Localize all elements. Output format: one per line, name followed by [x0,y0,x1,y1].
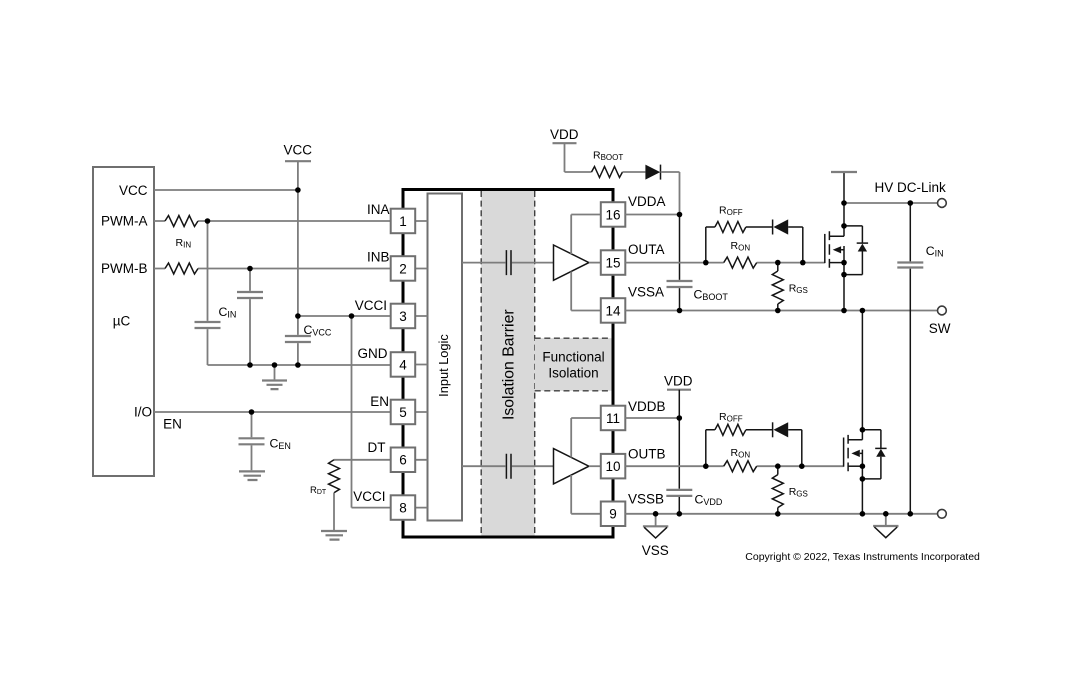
svg-text:VDD: VDD [550,127,579,142]
pin 10 OUTB [601,447,666,479]
pin 3 VCCI [355,298,415,328]
wire ROFF to diode B [746,429,772,431]
wire VSSB bottom rail [625,513,937,515]
resistor ROFF B [715,411,746,435]
left pin bus [402,190,405,538]
wire isolation signal B [462,465,554,467]
wire RBOOT to diode [623,171,646,173]
svg-text:VDDB: VDDB [628,399,666,414]
svg-text:Isolation Barrier: Isolation Barrier [500,309,517,420]
junction dots left section [205,187,355,415]
wire input cap column B [249,269,251,366]
svg-text:INA: INA [367,202,390,217]
wire RDT to ground [333,493,335,530]
wire VDDA row [625,214,679,216]
wire VSSA SW rail [625,310,937,312]
svg-text:PWM-A: PWM-A [101,214,148,229]
wire pin 14 to buffer A bottom [571,272,601,311]
svg-text:Copyright © 2022, Texas Instru: Copyright © 2022, Texas Instruments Inco… [745,551,980,563]
isolation capacitor B [506,454,511,479]
wire VCC from uC to VCC rail [154,189,298,191]
resistor ROFF A [715,204,746,232]
ground symbol on GND rail [262,365,287,389]
svg-text:1: 1 [399,214,407,229]
resistor RGS B [772,466,808,514]
svg-text:PWM-B: PWM-B [101,261,148,276]
svg-text:VCC: VCC [119,183,148,198]
capacitor CVCC [285,323,332,342]
svg-text:VSSA: VSSA [628,285,664,300]
svg-text:EN: EN [370,394,389,409]
svg-text:8: 8 [399,500,407,515]
pin 1 INA [367,202,415,233]
wire PWM-B [154,268,391,270]
turn-off branch A riser right [788,227,803,263]
diode turn-off B [773,422,789,437]
capacitor CIN input B [237,292,263,298]
wire VDDB row [625,417,679,419]
supply VDD symbol channel B [664,374,693,390]
wire VCCI row [298,315,391,317]
wire VCCI vertical to pin 8 [352,316,391,508]
diode bootstrap DBOOT [645,165,660,180]
svg-text:6: 6 [399,453,407,468]
capacitor CVDD [666,490,723,507]
wire pin 11 to buffer B top [571,418,601,458]
wire isolation signal A [462,262,554,264]
pin 14 VSSA [601,285,664,323]
wire VDD to RBOOT [565,143,592,172]
wire CIN column [909,203,911,514]
pin 4 GND [358,346,416,377]
svg-text:15: 15 [605,255,620,270]
wire PWM-A [154,220,391,222]
pin 16 VDDA [601,194,666,227]
supply bar above Q1 [831,171,857,173]
pin 6 DT [368,440,416,472]
svg-text:VDDA: VDDA [628,194,666,209]
svg-text:OUTA: OUTA [628,242,665,257]
pin 15 OUTA [601,242,665,275]
wire diode to VDDA node [661,172,680,215]
stub wires pins 1-8 to input logic [415,221,427,508]
svg-text:I/O: I/O [134,405,152,420]
svg-text:VDD: VDD [664,374,693,389]
pin 9 VSSB [601,491,664,526]
svg-text:VSS: VSS [642,543,669,558]
svg-text:10: 10 [605,459,620,474]
supply VCC symbol [283,143,312,162]
IC outline U1 [403,190,613,538]
svg-text:VCCI: VCCI [355,298,387,313]
svg-text:Isolation: Isolation [548,366,598,381]
svg-text:3: 3 [399,309,407,324]
wire OUTA row [625,262,825,264]
wire HV DC-Link row [844,202,938,204]
svg-text:16: 16 [605,207,620,222]
wire input cap column A [207,221,209,365]
diode turn-off A [773,219,789,234]
svg-text:9: 9 [609,507,617,522]
terminal HV DC-Link [938,199,947,208]
resistor RON A [724,240,757,268]
svg-text:VCC: VCC [283,143,312,158]
turn-off branch B riser right [788,430,802,466]
isolation capacitor A [506,250,511,275]
wire OUTB row [625,465,843,467]
turn-off branch B riser left [706,430,715,466]
svg-text:11: 11 [606,411,620,426]
right pin bus [612,190,615,538]
capacitor CIN input A [195,305,237,328]
pin 11 VDDB [601,399,666,430]
wire CBOOT column [679,215,681,311]
wire DT row [334,459,391,461]
svg-text:VCCI: VCCI [353,489,385,504]
capacitor CIN bulk [897,244,943,268]
svg-text:µC: µC [113,313,131,328]
resistor RGS A [772,263,808,311]
svg-text:Input Logic: Input Logic [436,334,451,397]
resistor RDT [310,460,340,496]
svg-text:2: 2 [399,261,407,276]
resistor RON B [724,447,757,472]
ground symbol VSS below pin 9 [642,514,669,558]
MOSFET Q2 low side [844,311,863,514]
wire VDD to VDDB node and CVDD column [678,390,680,514]
ground below RDT [321,531,347,540]
svg-text:VSSB: VSSB [628,491,664,506]
pin 5 EN [370,394,415,424]
svg-text:OUTB: OUTB [628,447,666,462]
turn-off branch A riser left [706,227,715,263]
microcontroller block uC [93,167,154,476]
svg-text:Functional: Functional [542,349,604,364]
svg-text:5: 5 [399,405,407,420]
driver buffer B [554,449,589,484]
pin 8 VCCI [353,489,415,520]
supply VDD symbol channel A [550,127,579,143]
input logic block [428,194,463,521]
svg-text:14: 14 [605,303,621,318]
wire EN row from I/O [154,411,391,413]
wire ROFF to diode A [746,226,772,228]
svg-text:EN: EN [163,417,182,432]
ground below CEN [239,471,265,480]
svg-text:INB: INB [367,250,390,265]
svg-text:SW: SW [929,321,951,336]
capacitor CBOOT [667,281,729,302]
resistor RIN [165,216,198,250]
body diode Q2 [862,430,886,479]
MOSFET Q1 high side [825,172,844,311]
isolation barrier band [481,191,535,536]
wire GND rail [208,364,391,366]
wire buffer A output to pin 15 [589,262,601,264]
svg-text:4: 4 [399,357,407,372]
wire buffer B output to pin 10 [589,465,601,467]
svg-text:DT: DT [368,440,386,455]
svg-text:GND: GND [358,346,388,361]
resistor RBOOT [592,150,624,178]
terminal bottom rail [938,509,947,518]
capacitor CEN [239,412,291,470]
body diode Q1 [844,226,868,275]
junction dots channel A [677,200,913,313]
resistor on PWM-B [165,263,198,274]
wire VCC rail vertical with CVCC break [297,161,299,365]
wire pin 16 to buffer A top [571,215,601,255]
wire pin 9 to buffer B bottom [571,475,601,514]
svg-text:HV DC-Link: HV DC-Link [875,180,947,195]
terminal SW [938,306,947,315]
ground symbol bottom right [873,514,898,538]
pin 2 INB [367,250,415,281]
junction dots channel B [653,415,913,516]
driver buffer A [554,245,589,280]
functional isolation box [535,338,612,391]
